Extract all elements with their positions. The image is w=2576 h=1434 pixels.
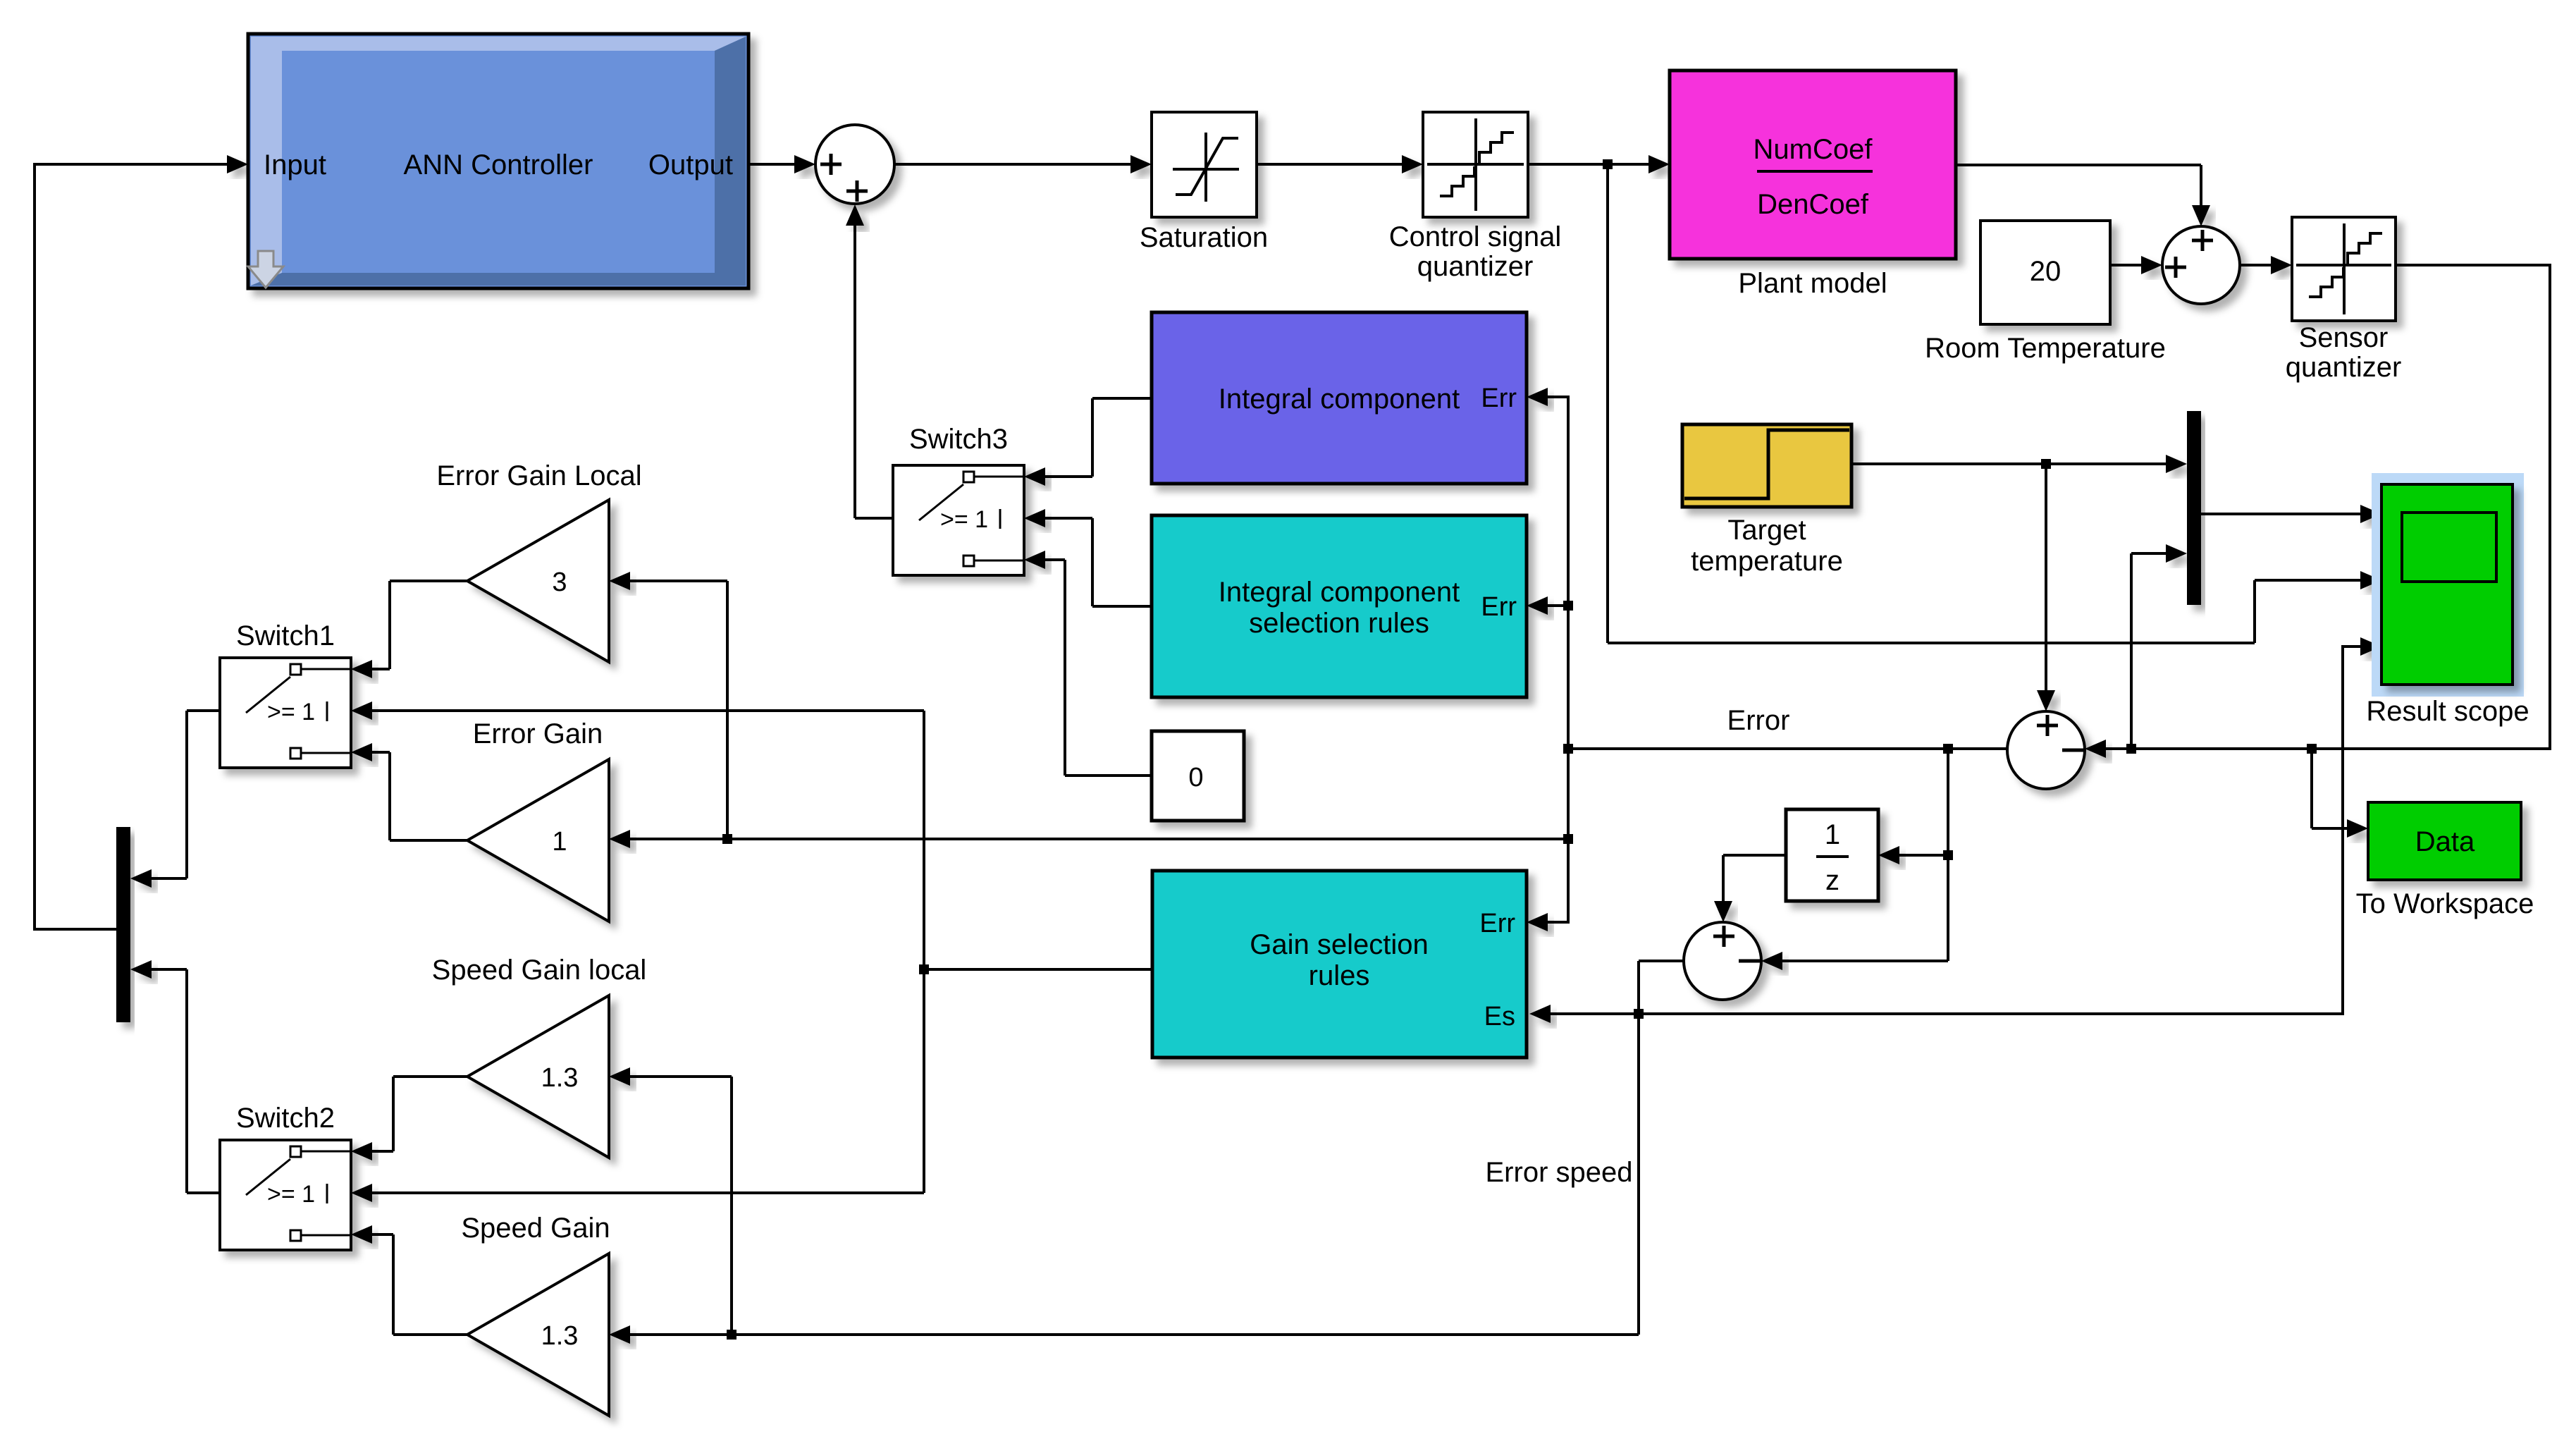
unit delay 1/z block xyxy=(1786,809,1878,901)
svg-text:Error speed: Error speed xyxy=(1486,1157,1633,1188)
svg-text:3: 3 xyxy=(552,568,567,597)
svg-text:20: 20 xyxy=(2030,256,2062,287)
wire Switch3 output up to sum1 bottom xyxy=(855,517,893,520)
wire branch up to mux-right input 2 xyxy=(2130,553,2133,749)
svg-text:>= 1: >= 1 xyxy=(267,1181,315,1208)
wire Error Gain Local output to Switch1 input 1 xyxy=(390,580,467,582)
vertical error distribution wire xyxy=(1567,396,1570,924)
svg-text:quantizer: quantizer xyxy=(1417,251,1534,282)
wire Integral component selection rules output to Switch3 input 2 xyxy=(1092,605,1152,608)
svg-text:1: 1 xyxy=(1825,819,1840,850)
switch Switch2 xyxy=(220,1140,351,1250)
junction on control signal wire xyxy=(1603,159,1613,169)
svg-text:NumCoef: NumCoef xyxy=(1754,134,1873,165)
svg-text:1: 1 xyxy=(552,827,567,857)
integral component selection rules block xyxy=(1152,515,1527,697)
wire sum2 to Sensor quantizer xyxy=(2240,264,2272,266)
svg-text:Speed Gain local: Speed Gain local xyxy=(432,955,647,986)
svg-text:Plant model: Plant model xyxy=(1738,268,1887,299)
svg-text:Target: Target xyxy=(1727,515,1806,546)
data to-workspace block xyxy=(2368,802,2521,880)
wire unit delay output to bottom sum top xyxy=(1723,854,1786,857)
junction error to Error Gain Local xyxy=(722,834,732,844)
svg-text:Err: Err xyxy=(1481,592,1517,622)
svg-text:DenCoef: DenCoef xyxy=(1757,189,1869,220)
svg-text:Control signal: Control signal xyxy=(1389,221,1562,252)
junction error speed to Speed Gain local xyxy=(727,1330,737,1340)
room temperature constant block xyxy=(1980,221,2110,324)
junction control line xyxy=(919,964,929,974)
svg-text:Sensor: Sensor xyxy=(2299,322,2389,353)
constant 0 block xyxy=(1152,731,1244,821)
wire error branch down to unit delay and bottom sum xyxy=(1947,749,1949,961)
svg-text:Switch1: Switch1 xyxy=(236,620,335,651)
wire control signal branch down to Result scope input 2 xyxy=(1606,164,1609,643)
error sum xyxy=(2007,711,2085,789)
wire Plant model output down to sum2 top xyxy=(1956,164,2201,166)
wire constant 0 to Switch3 input 3 xyxy=(1065,774,1152,777)
svg-text:quantizer: quantizer xyxy=(2286,352,2402,383)
switch Switch3 xyxy=(893,465,1024,575)
svg-text:Integral component: Integral component xyxy=(1219,577,1460,608)
svg-text:Speed Gain: Speed Gain xyxy=(461,1213,610,1244)
wire error speed to Es port and scope input 3 xyxy=(1549,1012,1639,1015)
svg-text:>= 1: >= 1 xyxy=(267,699,315,725)
drop-down arrow decoration xyxy=(248,251,283,288)
wire sensor quantizer feedback down and left to error sum xyxy=(2396,264,2550,266)
wire Speed Gain local output to Switch2 input 1 xyxy=(393,1075,467,1078)
svg-text:0: 0 xyxy=(1188,763,1203,792)
svg-text:rules: rules xyxy=(1309,960,1370,991)
integral component block xyxy=(1152,312,1527,484)
svg-text:ANN Controller: ANN Controller xyxy=(404,149,593,180)
svg-text:Data: Data xyxy=(2415,826,2475,857)
sensor quantizer block xyxy=(2292,217,2396,321)
svg-text:1.3: 1.3 xyxy=(541,1321,579,1351)
svg-text:Room Temperature: Room Temperature xyxy=(1925,333,2166,364)
svg-text:>= 1: >= 1 xyxy=(940,506,988,533)
junction error to delay branch xyxy=(1943,744,1953,754)
mux right (scope mux) xyxy=(2187,411,2201,605)
wire mux-right output to Result scope input 1 xyxy=(2201,513,2362,515)
wire bottom sum output down to speed gains (error speed) xyxy=(1639,960,1684,962)
svg-text:Switch2: Switch2 xyxy=(236,1103,335,1134)
sum2 room temperature xyxy=(2162,226,2240,304)
ANN Controller subsystem block xyxy=(248,34,748,288)
gain Error Gain Local value 3 xyxy=(467,500,609,662)
bottom sum error speed xyxy=(1684,922,1761,1000)
svg-text:z: z xyxy=(1825,865,1839,896)
control signal quantizer block xyxy=(1423,112,1528,217)
svg-text:Err: Err xyxy=(1479,909,1515,938)
wire sum1 to Saturation xyxy=(894,163,1132,166)
wire mux-left output to ANN input xyxy=(35,928,116,931)
svg-text:Switch3: Switch3 xyxy=(909,424,1008,455)
gain Error Gain value 1 xyxy=(467,759,609,921)
saturation block xyxy=(1152,112,1257,217)
switch Switch1 xyxy=(220,658,351,768)
wire Room Temperature to sum2 xyxy=(2110,264,2143,266)
svg-text:Integral component: Integral component xyxy=(1219,384,1460,415)
wire Speed Gain output to Switch2 input 3 xyxy=(393,1333,467,1336)
svg-text:Output: Output xyxy=(648,149,733,180)
wire Target temperature to mux-right input 1 xyxy=(1851,462,2167,465)
wire Error line from error sum output xyxy=(1568,747,2007,750)
wire Error Gain output to Switch1 input 3 xyxy=(390,839,467,842)
svg-text:Saturation: Saturation xyxy=(1140,222,1268,253)
gain Speed Gain value 1.3 xyxy=(467,1254,609,1416)
gain selection rules block xyxy=(1152,871,1527,1058)
svg-text:Error: Error xyxy=(1727,705,1790,736)
junction feedback to Data xyxy=(2307,744,2317,754)
svg-text:Es: Es xyxy=(1484,1002,1515,1031)
mux left (ANN input mux) xyxy=(116,827,130,1022)
wire Saturation to Control signal quantizer xyxy=(1257,163,1403,166)
wire Gain selection rules output xyxy=(924,968,1152,971)
gain Speed Gain local value 1.3 xyxy=(467,995,609,1158)
wire ANN output to sum1 xyxy=(748,163,796,166)
svg-text:temperature: temperature xyxy=(1691,546,1843,577)
svg-text:Gain selection: Gain selection xyxy=(1250,929,1428,960)
wire Switch1 output to mux-left input 1 xyxy=(187,709,220,712)
junction target temp to error sum xyxy=(2041,459,2051,469)
svg-text:Input: Input xyxy=(264,149,326,180)
svg-text:Error Gain: Error Gain xyxy=(473,718,603,749)
result scope block xyxy=(2372,473,2524,697)
wire branch down to Data block xyxy=(2310,749,2313,828)
svg-text:To Workspace: To Workspace xyxy=(2356,888,2534,919)
svg-text:Result scope: Result scope xyxy=(2366,696,2529,727)
svg-text:1.3: 1.3 xyxy=(541,1063,579,1093)
sum1 after ANN xyxy=(815,125,894,204)
svg-text:selection rules: selection rules xyxy=(1249,608,1429,639)
wire error to gain triangles xyxy=(629,838,1568,840)
target temperature step block xyxy=(1682,424,1851,507)
wire gain selection control to Switch1 and Switch2 xyxy=(371,709,924,712)
svg-text:Err: Err xyxy=(1481,384,1517,413)
junction feedback to mux input 2 xyxy=(2126,744,2136,754)
wire branch down to error sum top xyxy=(2045,464,2047,692)
wire Integral component output to Switch3 input 1 xyxy=(1092,397,1152,400)
plant model transfer function block xyxy=(1670,71,1956,259)
svg-text:Error Gain Local: Error Gain Local xyxy=(436,460,641,491)
wire quantizer to Plant model xyxy=(1528,163,1650,166)
wire Switch2 output to mux-left input 2 xyxy=(187,1191,220,1194)
